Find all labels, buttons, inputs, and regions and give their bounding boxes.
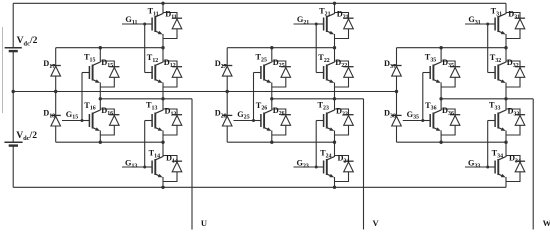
node leg3 A1 main	[504, 46, 507, 49]
node leg1 A1 clamp	[99, 46, 102, 49]
wire neutral midpoint bus	[13, 91, 397, 93]
node leg2 DC+ tap	[333, 2, 336, 5]
wire leg1 main rail seg T12-T13	[162, 83, 164, 111]
wire leg3 main rail bottom segment	[505, 177, 507, 187]
node leg2 A1 main	[333, 46, 336, 49]
node leg2 neutral clamp tap	[226, 90, 229, 93]
wire leg2 gate bus G21	[315, 24, 317, 73]
diode D17 clamp upper	[51, 66, 61, 77]
diode D26	[272, 109, 291, 135]
node leg2 gate tap G25	[252, 119, 255, 122]
diode D22	[335, 61, 354, 87]
wire leg2 gate lead G21	[294, 23, 324, 25]
node leg3 A2 main	[504, 141, 507, 144]
wire leg1 main rail seg T11-T12	[162, 34, 164, 63]
wire leg1 node A1 link	[56, 47, 163, 49]
transistor T32	[488, 62, 506, 83]
wire leg2 main rail seg T21-T22	[334, 34, 336, 63]
wire bottom DC- bus	[13, 186, 506, 188]
wire leg1 gate bus G11	[144, 24, 146, 73]
wire leg3 gate bus G35	[422, 73, 424, 121]
transistor T22	[316, 62, 334, 83]
wire leg3 main rail seg T32-T33	[505, 83, 507, 111]
wire leg2 gate lead G25	[234, 120, 261, 122]
node leg1 gate tap G11	[143, 23, 146, 26]
wire leg1 gate lead G11	[122, 23, 152, 25]
wire leg2 main rail seg T23-T24	[334, 131, 336, 158]
diode D34	[506, 156, 525, 182]
wire leg2 clamp diode string	[226, 48, 228, 143]
wire leg2 clamp rail upper	[271, 48, 273, 63]
diode D13	[163, 109, 182, 135]
transistor T16	[82, 110, 100, 131]
wire leg1 main rail bottom segment	[162, 177, 164, 187]
diode D36	[441, 109, 460, 135]
node leg1 gate tap G15	[81, 119, 84, 122]
diode D12	[163, 61, 182, 87]
wire left rail middle segment	[12, 51, 14, 142]
wire leg2 gate bus G25	[253, 73, 255, 121]
transistor T35	[423, 62, 441, 83]
wire leg1 main rail seg T13-T14	[162, 131, 164, 158]
wire leg3 gate bus G33	[487, 121, 489, 168]
node leg3 neutral clamp tap	[395, 90, 398, 93]
diode D27 clamp upper	[222, 66, 232, 77]
wire leg1 output drop U	[191, 99, 193, 230]
node leg1 neutral clamp tap	[54, 90, 57, 93]
transistor T13	[145, 110, 163, 131]
wire leg1 gate lead G13	[122, 166, 145, 168]
diode D15	[100, 61, 119, 87]
transistor T25	[254, 62, 272, 83]
wire leg2 main rail top segment	[334, 3, 336, 14]
wire leg1 clamp rail lower	[99, 131, 101, 143]
diode D21	[335, 13, 354, 39]
wire leg3 output rail	[441, 98, 533, 100]
node leg3 output clamp	[439, 97, 442, 100]
transistor T24	[316, 157, 334, 178]
node leg2 A2 clamp	[270, 141, 273, 144]
wire leg3 node A2 link	[397, 141, 507, 143]
wire leg1 gate bus G15	[81, 73, 83, 121]
wire leg3 clamp rail upper	[440, 48, 442, 63]
diode D18 clamp lower	[51, 115, 61, 126]
wire leg3 node A1 link	[397, 47, 507, 49]
wire leg2 gate lead G23	[294, 166, 317, 168]
wire leg1 gate lead G15	[62, 120, 89, 122]
wire leg3 main rail seg T33-T34	[505, 131, 507, 158]
diode D11	[163, 13, 182, 39]
wire leg1 clamp rail upper	[99, 48, 101, 63]
diode D14	[163, 156, 182, 182]
transistor T33	[488, 110, 506, 131]
wire leg3 clamp rail lower	[440, 131, 442, 143]
scan artifact left edge	[1, 27, 3, 113]
node leg1 DC- tap	[161, 186, 164, 189]
wire leg3 gate bus G31	[487, 24, 489, 73]
transistor T23	[316, 110, 334, 131]
node leg3 A2 clamp	[439, 141, 442, 144]
svg-text:V: V	[373, 218, 380, 228]
source Vdc/2 upper battery	[5, 48, 22, 51]
wire leg2 output drop V	[363, 99, 365, 230]
wire leg2 gate bus G23	[315, 121, 317, 168]
diode D38 clamp lower	[391, 115, 401, 126]
diode D32	[506, 61, 525, 87]
wire top DC+ bus	[13, 2, 506, 4]
node leg3 A1 clamp	[439, 46, 442, 49]
transistor T15	[82, 62, 100, 83]
transistor T14	[145, 157, 163, 178]
node leg2 gate tap G23	[315, 166, 318, 169]
wire left rail upper segment	[12, 3, 14, 47]
transistor T31	[488, 14, 506, 35]
wire leg3 gate lead G33	[465, 166, 488, 168]
wire leg2 clamp rail middle	[271, 83, 273, 111]
wire leg1 main rail top segment	[162, 3, 164, 14]
wire leg1 output rail	[100, 98, 192, 100]
diode D23	[335, 109, 354, 135]
wire leg2 main rail seg T22-T23	[334, 83, 336, 111]
node leg1 A2 clamp	[99, 141, 102, 144]
node leg1 A2 main	[161, 141, 164, 144]
wire leg2 clamp rail lower	[271, 131, 273, 143]
node leg2 output main	[333, 97, 336, 100]
wire leg3 main rail top segment	[505, 3, 507, 14]
wire leg1 node A2 link	[56, 141, 163, 143]
wire leg1 gate bus G13	[144, 121, 146, 168]
wire leg3 output drop W	[532, 99, 534, 230]
diode D33	[506, 109, 525, 135]
wire leg3 clamp diode string	[396, 48, 398, 143]
node leg2 gate tap G21	[315, 23, 318, 26]
transistor T34	[488, 157, 506, 178]
wire leg2 output rail	[272, 98, 364, 100]
node leg1 output clamp	[99, 97, 102, 100]
transistor T21	[316, 14, 334, 35]
node leg2 DC- tap	[333, 186, 336, 189]
node leg1 A1 main	[161, 46, 164, 49]
transistor T12	[145, 62, 163, 83]
node neutral tap on left rail	[12, 90, 15, 93]
svg-text:U: U	[201, 218, 207, 228]
wire leg3 main rail seg T31-T32	[505, 34, 507, 63]
node leg3 gate tap G33	[486, 166, 489, 169]
diode D16	[100, 109, 119, 135]
diode D25	[272, 61, 291, 87]
node leg2 A2 main	[333, 141, 336, 144]
node leg2 A1 clamp	[270, 46, 273, 49]
wire leg3 gate lead G35	[403, 120, 430, 122]
diode D28 clamp lower	[222, 115, 232, 126]
transistor T26	[254, 110, 272, 131]
diode D31	[506, 13, 525, 39]
wire leg1 clamp diode string	[55, 48, 57, 143]
diode D35	[441, 61, 460, 87]
wire leg2 node A1 link	[227, 47, 334, 49]
wire leg2 node A2 link	[227, 141, 334, 143]
svg-text:W: W	[543, 218, 550, 228]
diode D24	[335, 156, 354, 182]
wire leg3 clamp rail middle	[440, 83, 442, 111]
node leg3 gate tap G35	[421, 119, 424, 122]
node leg3 output main	[504, 97, 507, 100]
transistor T36	[423, 110, 441, 131]
wire leg1 clamp rail middle	[99, 83, 101, 111]
node leg1 gate tap G13	[143, 166, 146, 169]
node leg1 output main	[161, 97, 164, 100]
transistor T11	[145, 14, 163, 35]
diode D37 clamp upper	[391, 66, 401, 77]
node leg1 DC+ tap	[161, 2, 164, 5]
node leg3 gate tap G31	[486, 23, 489, 26]
wire leg3 gate lead G31	[465, 23, 495, 25]
wire leg2 main rail bottom segment	[334, 177, 336, 187]
source Vdc/2 lower battery	[4, 142, 22, 145]
node leg2 output clamp	[270, 97, 273, 100]
wire left rail lower segment	[12, 146, 14, 188]
